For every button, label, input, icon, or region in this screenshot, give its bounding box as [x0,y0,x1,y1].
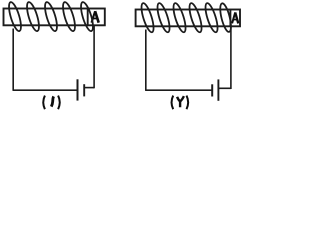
coil 2 turn 4 [187,2,204,33]
coil 2 turn 1 [139,2,156,33]
coil 1 turn 2 [25,1,42,32]
label A (coil 1) [92,11,99,23]
wire: battery 1 to right lead [84,87,94,89]
battery 2 long plate [217,79,219,100]
coil 1 turn 5 [79,1,96,32]
wire: battery 2 to right lead [218,87,231,89]
battery 2 short plate [211,84,213,96]
wire: coil 1 left lead down [12,29,14,91]
coil 1 turn 4 [61,1,78,32]
wire: circuit 1 bottom [13,89,78,91]
wire: coil 2 right lead up [230,26,232,89]
label (1) arabic [43,96,60,110]
coil 2 turn 6 [218,2,233,33]
label (2) arabic [172,96,189,110]
label A (coil 2) [232,12,238,23]
coil 2 turn 3 [171,2,188,33]
wire: coil 2 left lead down [145,30,147,91]
coil 2 turn 5 [203,2,220,33]
coil 2 turn 2 [155,2,172,33]
battery 1 long plate [77,79,79,100]
coil 1 turn 1 [7,1,24,32]
battery 1 short plate [83,84,85,96]
coil 1 turn 3 [43,1,60,32]
A-box divider 1 [87,9,89,26]
wire: circuit 2 bottom [145,89,212,91]
iron core bar 1 [4,9,105,26]
wire: coil 1 right lead up [93,25,95,88]
iron core bar 2 [136,10,240,27]
A-box divider 2 [229,10,231,27]
